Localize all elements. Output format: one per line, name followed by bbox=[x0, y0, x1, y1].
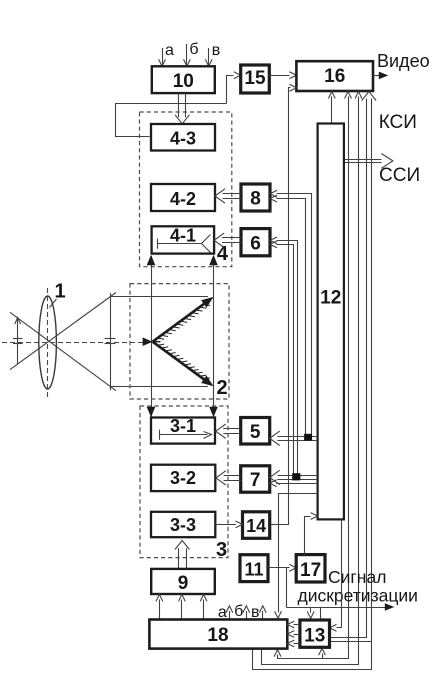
dashed group box 3 bbox=[140, 406, 228, 558]
svg-text:б: б bbox=[234, 603, 243, 620]
wire ray to upper mirror tip bbox=[110, 296, 208, 298]
label KSI bbox=[379, 112, 417, 133]
wire 11 to 17 bbox=[268, 564, 296, 571]
svg-text:13: 13 bbox=[304, 626, 325, 647]
wire 18 to 9 (line 2) bbox=[179, 594, 186, 619]
ray through lens (lower-left to upper-right) bbox=[10, 293, 116, 370]
wire 15 to 16 bbox=[269, 72, 296, 79]
wire 16 to Video output bbox=[373, 72, 388, 80]
label a at 18 bbox=[218, 604, 227, 621]
label b at 18 bbox=[234, 603, 243, 620]
svg-text:4-3: 4-3 bbox=[170, 129, 196, 149]
wire wide arrow 12 to 7 bbox=[270, 470, 318, 484]
svg-text:Сигнал: Сигнал bbox=[328, 567, 386, 587]
label 2 bbox=[216, 377, 227, 399]
block 10 bbox=[152, 66, 215, 93]
block 14 bbox=[243, 512, 270, 539]
wire feedback into 6 (line 2) bbox=[270, 241, 294, 474]
wire 13 to 18 (line 2) bbox=[287, 631, 300, 638]
intermediate image line bbox=[105, 293, 116, 390]
svg-text:16: 16 bbox=[324, 66, 345, 87]
wire wide arrow 6 to 4-1 bbox=[214, 233, 241, 247]
svg-text:18: 18 bbox=[207, 625, 228, 646]
svg-text:8: 8 bbox=[250, 189, 261, 210]
object arrow (scene) bbox=[13, 318, 23, 365]
wire 18 to 9 (line 3) bbox=[200, 594, 207, 619]
svg-text:10: 10 bbox=[173, 71, 194, 92]
lens L1 (ellipse) bbox=[39, 296, 57, 389]
block 6 bbox=[241, 229, 270, 256]
lens 1 vertical dashed axis bbox=[47, 288, 49, 400]
wire scan line right (mirror to 4-1 and 3-1) bbox=[209, 255, 218, 417]
wire input a into block 10 bbox=[159, 48, 166, 66]
svg-text:14: 14 bbox=[246, 516, 266, 536]
block 8 bbox=[241, 184, 270, 211]
delay symbol inside 4-1 bbox=[157, 235, 211, 253]
wire single line 12 to 7 lower input bbox=[270, 480, 318, 487]
svg-text:4-1: 4-1 bbox=[170, 226, 196, 246]
svg-text:3-3: 3-3 bbox=[170, 515, 196, 535]
wire feedback into 8 (from junction, line 1) bbox=[270, 190, 312, 434]
block 4-3 bbox=[151, 124, 215, 151]
svg-text:5: 5 bbox=[250, 422, 261, 443]
block 3-1 bbox=[151, 416, 215, 444]
label diskretizacii bbox=[298, 586, 418, 606]
svg-text:17: 17 bbox=[300, 560, 321, 581]
wire loop from 18 bottom up to 16 (line b) bbox=[262, 92, 362, 665]
block 12 bbox=[318, 124, 344, 520]
block 13 bbox=[300, 620, 330, 647]
node a (input label) bbox=[165, 42, 174, 59]
block 17 bbox=[296, 555, 325, 582]
svg-text:9: 9 bbox=[178, 573, 189, 594]
label Signal bbox=[328, 567, 386, 587]
wire scan line left (mirror to 4-1 and 3-1) bbox=[147, 255, 156, 417]
block 15 bbox=[241, 65, 270, 93]
svg-text:6: 6 bbox=[250, 234, 261, 255]
wire output b of 18 bbox=[243, 606, 250, 620]
svg-text:2: 2 bbox=[216, 377, 227, 399]
dashed group box 2 bbox=[130, 284, 229, 399]
label 1 with pointer bbox=[50, 281, 66, 308]
junction square on lines to 5 bbox=[304, 434, 312, 441]
svg-text:12: 12 bbox=[320, 288, 341, 309]
svg-text:15: 15 bbox=[244, 68, 266, 89]
block 16 bbox=[296, 61, 373, 91]
wire ray to lower mirror tip bbox=[110, 386, 208, 388]
block 7 bbox=[241, 466, 270, 492]
block 11 bbox=[240, 555, 268, 582]
label v at 18 bbox=[251, 604, 260, 621]
wire wide arrow 9 to 3-3 bbox=[175, 541, 189, 569]
svg-text:дискретизации: дискретизации bbox=[298, 586, 418, 606]
wire sampling signal output (from 13 top) bbox=[287, 603, 395, 620]
mirror 2 lower arm bbox=[153, 341, 214, 386]
wire bus from 10 to 15 and to 4-3 left input bbox=[115, 72, 241, 137]
svg-text:а: а bbox=[165, 42, 174, 59]
wire 3-3 to 14 bbox=[215, 521, 242, 528]
wire wide arrow 7 to 3-2 bbox=[216, 471, 241, 485]
wire wide arrow 5 to 3-1 bbox=[216, 424, 241, 438]
node v (input label) bbox=[212, 42, 221, 59]
wire SSI output arrow from 12 bbox=[344, 154, 393, 169]
dashed group box 4 bbox=[140, 112, 232, 267]
wire input b into block 10 bbox=[184, 44, 191, 66]
svg-text:ССИ: ССИ bbox=[379, 165, 420, 186]
wire feedback into 6 (line 1) bbox=[270, 237, 298, 474]
svg-text:11: 11 bbox=[244, 560, 263, 580]
svg-text:б: б bbox=[189, 41, 198, 58]
block 3-2 bbox=[151, 465, 215, 491]
svg-text:7: 7 bbox=[250, 470, 261, 491]
block 5 bbox=[241, 418, 270, 445]
wire wide arrow bus from 13 up to 16 (KSI) bbox=[253, 92, 377, 670]
block 18 bbox=[149, 620, 287, 649]
label SSI bbox=[379, 165, 420, 186]
wire 13 to 18 (line 1) bbox=[287, 621, 300, 628]
block 3-3 bbox=[151, 512, 215, 537]
wire wide arrow 12 to 5 bbox=[270, 431, 318, 445]
wire 18 to 9 (line 1) bbox=[156, 594, 163, 619]
wire from 14 up to 16 left input bbox=[270, 84, 297, 524]
wire loop from 18 bottom area up to 16 (line a) bbox=[274, 92, 351, 659]
wire output v of 18 bbox=[259, 606, 266, 620]
svg-text:КСИ: КСИ bbox=[379, 112, 417, 133]
wire wide arrow from 10 down to 4-3 bbox=[175, 93, 189, 124]
wire wide arrow 8 to 4-2 bbox=[215, 189, 241, 203]
wire 12 to 16 bbox=[328, 92, 335, 124]
svg-text:3: 3 bbox=[216, 539, 227, 561]
label Video bbox=[377, 51, 430, 71]
label 3 bbox=[216, 539, 227, 561]
wire input v into block 10 bbox=[205, 48, 212, 66]
wire output a of 18 bbox=[226, 606, 233, 620]
wire feedback into 8 (from junction, line 2) bbox=[270, 195, 306, 434]
wire 12 left output down to 18 bbox=[275, 494, 318, 619]
block 4-1 bbox=[152, 226, 215, 254]
wire branch from 11-17 line down to 13 bbox=[287, 568, 315, 619]
svg-text:3-1: 3-1 bbox=[170, 416, 196, 436]
wire 17 to 12 bbox=[305, 513, 318, 555]
wire 13 to 18 (line 3) bbox=[287, 640, 300, 647]
junction square on lines to 7 bbox=[292, 473, 300, 480]
node b (input label) bbox=[189, 41, 198, 58]
scan arrow inside 3-1 bbox=[159, 430, 211, 440]
ray through lens (upper-left to lower-right) bbox=[10, 312, 116, 390]
mirror 2 upper arm bbox=[153, 297, 214, 342]
svg-text:Видео: Видео bbox=[377, 51, 430, 71]
svg-text:3-2: 3-2 bbox=[170, 468, 196, 488]
block 9 bbox=[151, 569, 215, 594]
svg-text:4-2: 4-2 bbox=[170, 189, 196, 209]
block 4-2 bbox=[151, 184, 215, 211]
label 4 bbox=[217, 243, 229, 265]
svg-text:в: в bbox=[212, 42, 221, 59]
optical axis dashed with arrow to mirror vertex bbox=[2, 337, 153, 346]
wire 12 bottom to 13 right input bbox=[330, 520, 342, 632]
